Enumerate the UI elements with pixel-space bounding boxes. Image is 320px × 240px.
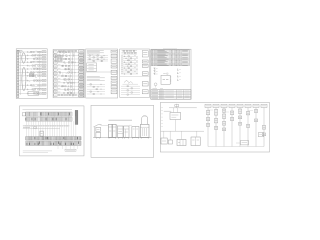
terminal strip X1	[17, 50, 19, 97]
bottom rail line 1	[23, 150, 52, 152]
wire drop T1 vertical	[39, 53, 41, 91]
bus riser T2b	[69, 52, 71, 94]
mid rail ticks	[24, 125, 68, 127]
right device column T3 header text	[112, 51, 116, 53]
harness wires with splice symbols	[19, 51, 42, 94]
bottom note box B1	[65, 149, 76, 151]
sheet T3 lower text rows	[87, 76, 105, 80]
spare contact symbols left	[154, 68, 158, 75]
bus riser T2	[71, 51, 73, 97]
right device column relay boxes	[79, 54, 84, 97]
junction box A1	[28, 91, 39, 95]
parts list table	[150, 50, 189, 66]
sheet T4 lower wiring rows	[121, 86, 140, 96]
feeder bus horizontal	[169, 107, 197, 109]
device pedestal P1	[96, 127, 101, 137]
sheet T1 border (harness wiring diagram)	[16, 49, 47, 99]
parts list table header title	[163, 48, 177, 50]
feeder bottom tie line	[208, 146, 264, 148]
auxiliary panel box	[191, 131, 200, 145]
sheet T2 bottom element row	[58, 94, 79, 96]
top corner fuse cluster	[17, 50, 22, 52]
arrangement title text	[109, 119, 133, 121]
cable loom W1	[22, 53, 26, 63]
left terminal column XT2	[54, 51, 57, 97]
sheet B1 border (terminal interconnection diagram)	[20, 106, 85, 156]
main switch box Q10	[170, 108, 181, 120]
right device column T3 boxes	[111, 54, 117, 93]
sheet B2 border (equipment arrangement diagram)	[91, 105, 154, 157]
sheet T4 top junction knot	[122, 50, 138, 54]
upper bus line B1	[23, 109, 73, 111]
sheet T5 border (parts list and title block)	[151, 49, 191, 99]
left margin text column	[161, 108, 163, 127]
dark cable duct block	[75, 110, 78, 124]
pump unit with dome	[140, 116, 149, 137]
lower band drop wires	[58, 146, 78, 150]
cable tray bracket	[94, 124, 102, 137]
right device column T4 header	[142, 51, 148, 57]
feeder ladder columns	[205, 104, 267, 146]
sheet T2 border (control circuit sheet 1)	[53, 49, 84, 97]
meter box P10	[161, 131, 167, 144]
switch panel S1	[132, 127, 139, 138]
relay box K10	[40, 131, 43, 136]
sheet T3 divider line	[86, 71, 118, 73]
transformer box T10	[177, 131, 186, 145]
apparatus outline U5	[161, 73, 171, 84]
control cabinet C1	[118, 126, 123, 137]
mid rail line 2	[23, 128, 60, 130]
sheet T3 scattered wire labels	[88, 53, 102, 61]
bus riser T2c	[73, 52, 75, 94]
mounting feet ticks	[97, 138, 149, 139]
terminal circle tail	[155, 86, 157, 88]
sheet T4 divider line	[120, 76, 150, 78]
right device column T4 header text	[143, 52, 147, 54]
incoming supply label	[164, 110, 172, 112]
mounting base line	[93, 137, 152, 139]
vertical interconnect wires	[27, 116, 76, 136]
supply connector drop	[175, 104, 179, 108]
signal table A3	[87, 63, 97, 71]
sheet T3 note text block	[87, 50, 104, 54]
left column row labels	[54, 54, 56, 94]
connector column XT1	[42, 51, 46, 94]
feeder bottom load box	[236, 141, 249, 145]
strip rail second conductor	[20, 52, 22, 95]
sheet T3 lower wiring cluster	[87, 84, 105, 95]
control cabinet C2	[124, 126, 129, 137]
feeder column devices	[206, 109, 265, 136]
bottom rail line 2	[23, 152, 48, 154]
contactor cluster Q1	[123, 80, 139, 84]
harness row label specks	[22, 52, 37, 91]
right device column header text	[79, 50, 83, 52]
right device column T4 boxes	[142, 60, 148, 94]
spare contact symbols right	[177, 69, 181, 81]
mid-sheet dense splice patch	[29, 74, 34, 77]
terminal circle symbol	[154, 83, 157, 86]
lower terminal band XT11	[26, 137, 81, 146]
feeder tie links	[208, 110, 253, 112]
distribution rail line	[161, 130, 204, 132]
right device column header box	[79, 50, 84, 53]
sheet T3 upper wiring rows	[87, 55, 108, 62]
dense logic cluster A2	[55, 55, 63, 61]
sheet T4 upper wiring rows	[121, 56, 138, 75]
drive unit M1 tall cabinet pair	[108, 124, 116, 137]
mid rail line 1	[23, 125, 70, 127]
control wiring rows with contacts	[57, 51, 79, 97]
sheet T3 border (control circuit sheet 2)	[86, 49, 118, 98]
cable loom W2	[22, 67, 26, 90]
sheet B3 border (single line distribution diagram)	[160, 103, 269, 153]
right auxiliary box	[258, 133, 263, 137]
right device column T3 header	[111, 50, 117, 53]
switch drop wire	[175, 120, 177, 132]
mid label cluster	[23, 127, 37, 128]
interconnect conduit lines	[101, 124, 132, 126]
left pilot device box	[22, 113, 25, 116]
note dashes above title block	[152, 87, 163, 89]
left symbol riser wire	[154, 68, 156, 76]
sheet T4 border (control circuit sheet 3)	[120, 49, 150, 97]
title block table	[151, 90, 191, 100]
upper terminal band XT10	[26, 112, 72, 121]
sheet T2 top element row	[59, 50, 77, 52]
junction box A1 inner divider	[28, 92, 39, 94]
meter box P11	[168, 131, 172, 144]
